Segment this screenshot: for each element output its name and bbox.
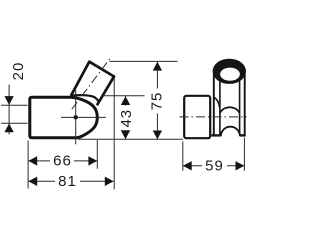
dim 20: dimension line bbox=[8, 85, 10, 135]
inner bore left line bbox=[219, 80, 221, 135]
center dot bbox=[74, 115, 78, 119]
stub base intersection curve bbox=[71, 95, 99, 102]
dim 81: arrows bbox=[28, 177, 37, 186]
dim 43: dimension line bbox=[125, 96, 127, 106]
svg-text:59: 59 bbox=[205, 158, 224, 175]
dim 75: extension line top bbox=[110, 60, 178, 62]
dim 81: extension line right bbox=[113, 78, 115, 190]
fillet plate-to-cup bbox=[214, 97, 220, 107]
crosshair vertical bbox=[75, 90, 77, 144]
dim 20: extension lines bbox=[1, 104, 28, 106]
dim 66: extension line right bbox=[96, 140, 98, 169]
dim 59: dimension line bbox=[183, 165, 202, 167]
stub centerline bbox=[72, 57, 112, 110]
wall plate bbox=[184, 96, 210, 138]
rim ring (top opening) bbox=[213, 59, 246, 84]
dim 43: extension lines bbox=[103, 95, 145, 97]
dim 81: dimension line bbox=[29, 180, 56, 182]
svg-text:66: 66 bbox=[53, 153, 72, 170]
lower saddle arc bbox=[221, 127, 240, 137]
dim 75: dimension line bbox=[156, 62, 158, 89]
dim 66: arrows bbox=[28, 156, 37, 165]
dim 66: dimension line bbox=[29, 160, 51, 162]
dim 59: extension lines bbox=[182, 142, 184, 171]
inner bore right line bbox=[239, 80, 241, 135]
svg-text:81: 81 bbox=[58, 173, 77, 190]
dim 20: arrows bbox=[4, 96, 13, 105]
svg-text:20: 20 bbox=[10, 62, 27, 81]
svg-text:43: 43 bbox=[118, 109, 135, 128]
centerline right view bbox=[180, 116, 247, 118]
dim 43: arrows bbox=[121, 96, 130, 105]
svg-text:75: 75 bbox=[149, 92, 166, 111]
cup bottom edge bbox=[212, 134, 221, 136]
angled stub cylinder bbox=[71, 62, 114, 106]
dim 59: arrows bbox=[183, 161, 192, 170]
cup outer left edge bbox=[213, 72, 215, 137]
holder body (bar with rounded nose) bbox=[30, 97, 98, 138]
cup outer right edge bbox=[244, 72, 246, 137]
dim 75: arrows bbox=[153, 62, 162, 71]
body-left extension line bbox=[27, 141, 29, 189]
crosshair horizontal bbox=[61, 116, 106, 118]
upper saddle arc bbox=[220, 107, 240, 113]
